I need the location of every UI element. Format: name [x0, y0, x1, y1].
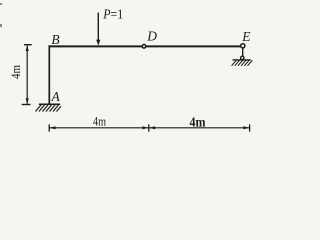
svg-text:A: A	[51, 89, 61, 104]
svg-text:P=1: P=1	[102, 6, 123, 21]
svg-text:4m: 4m	[9, 65, 23, 79]
svg-text:D: D	[146, 29, 157, 44]
svg-text:E: E	[241, 29, 251, 44]
svg-text:4m: 4m	[190, 116, 206, 131]
svg-text:4m: 4m	[93, 113, 106, 128]
svg-text:B: B	[51, 32, 59, 47]
